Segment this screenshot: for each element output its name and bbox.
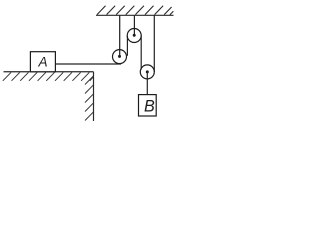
P1 axle dot <box>118 55 121 58</box>
pulley P3 <box>140 65 154 79</box>
table edge hatching <box>85 76 93 120</box>
pulley P2 <box>127 29 141 43</box>
ceiling <box>96 6 174 16</box>
rope ceiling to P3 right side <box>153 15 155 72</box>
rope from A to pulley P1 <box>55 63 121 65</box>
rope ceiling to P1 axle <box>119 15 121 57</box>
P2 axle dot <box>133 34 136 37</box>
rope P2 to P3 <box>140 36 142 70</box>
rope P1 to P2 <box>126 36 128 56</box>
P3 axle dot <box>146 70 149 73</box>
svg-text:A: A <box>38 55 48 70</box>
table hatching under surface <box>3 72 94 80</box>
rope ceiling to P2 axle <box>133 15 135 36</box>
svg-text:B: B <box>144 97 155 115</box>
rope P3 to block B <box>146 72 148 95</box>
block B <box>139 95 157 116</box>
pulley P1 <box>113 50 127 64</box>
block A <box>30 52 55 72</box>
wall / table <box>4 72 94 121</box>
